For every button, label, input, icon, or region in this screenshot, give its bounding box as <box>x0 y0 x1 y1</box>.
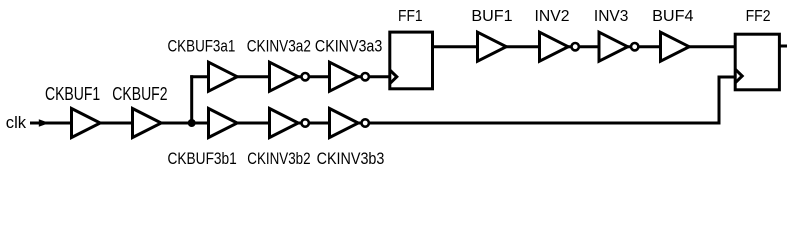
svg-text:CKBUF3a1: CKBUF3a1 <box>168 37 236 55</box>
inverter INV3 <box>599 32 638 61</box>
buffer CKBUF3a1 <box>209 62 238 91</box>
inverter CKINV3a2 <box>270 62 309 91</box>
FF2 clock pin wedge <box>735 69 742 83</box>
inverter CKINV3b2 <box>270 109 309 138</box>
svg-text:CKINV3b2: CKINV3b2 <box>247 150 310 167</box>
buffer CKBUF1 <box>72 109 101 138</box>
svg-text:BUF4: BUF4 <box>652 8 694 25</box>
buffer BUF4 <box>661 32 690 61</box>
inverter CKINV3a3 <box>330 62 369 91</box>
wire: clk input and bottom clock branch (net clk_b) <box>30 122 721 125</box>
svg-text:CKBUF3b1: CKBUF3b1 <box>168 150 237 167</box>
flip-flop U: FF1 body <box>390 32 433 89</box>
buffer BUF1 <box>478 32 507 61</box>
buffer CKBUF3b1 <box>209 109 238 138</box>
wire: top clock branch (net clk_a) <box>190 75 391 78</box>
svg-text:FF2: FF2 <box>746 8 771 25</box>
svg-text:INV2: INV2 <box>535 8 570 25</box>
svg-text:clk: clk <box>6 113 27 132</box>
svg-text:BUF1: BUF1 <box>471 8 512 25</box>
inverter CKINV3b3 <box>330 109 369 138</box>
svg-text:CKINV3a2: CKINV3a2 <box>247 37 311 55</box>
inverter INV2 <box>540 32 579 61</box>
svg-text:CKBUF2: CKBUF2 <box>112 84 167 104</box>
flip-flop U: FF2 body <box>735 34 779 90</box>
wire: FF2 Q output stub <box>779 45 787 48</box>
input arrowhead on clk <box>39 119 50 127</box>
FF1 clock pin wedge <box>390 70 397 84</box>
buffer CKBUF2 <box>133 109 162 138</box>
node: branch junction dot <box>188 119 196 127</box>
svg-text:CKBUF1: CKBUF1 <box>45 84 100 104</box>
svg-text:INV3: INV3 <box>594 8 629 25</box>
svg-text:FF1: FF1 <box>398 8 423 25</box>
wire: riser to FF2 clock pin <box>719 77 736 125</box>
svg-text:CKINV3b3: CKINV3b3 <box>317 150 385 167</box>
wire: FF1 Q to FF2 D data path <box>433 45 736 48</box>
svg-text:CKINV3a3: CKINV3a3 <box>315 37 382 55</box>
wire: junction riser between branches <box>190 75 193 123</box>
